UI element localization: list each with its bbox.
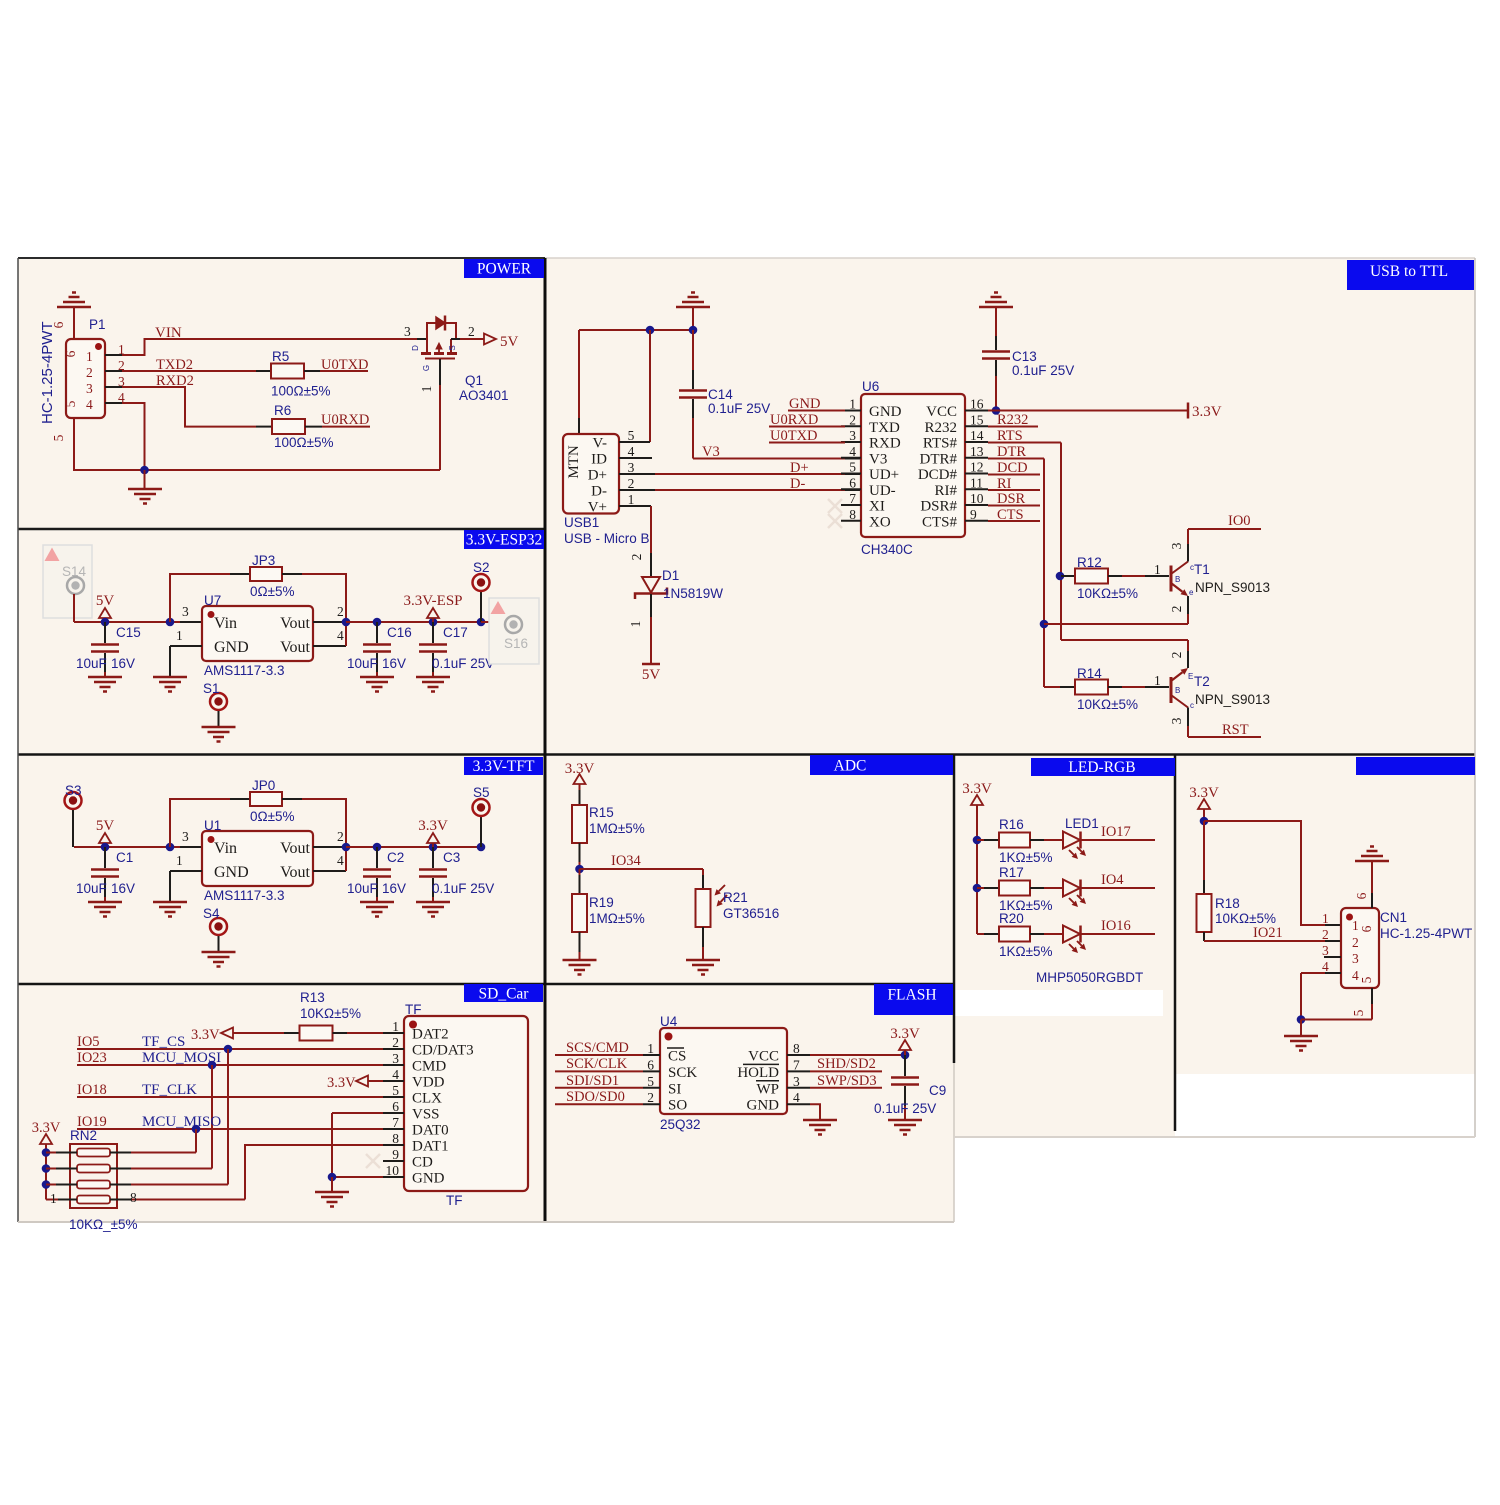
svg-text:SWP/SD3: SWP/SD3 bbox=[817, 1073, 877, 1089]
svg-text:DTR: DTR bbox=[997, 444, 1026, 460]
svg-text:AMS1117-3.3: AMS1117-3.3 bbox=[204, 663, 285, 678]
junction bbox=[42, 1148, 51, 1157]
svg-text:JP3: JP3 bbox=[252, 553, 275, 568]
pin 7 DAT0 of TF bbox=[383, 1128, 404, 1130]
diode D1 1N5819W bbox=[650, 506, 652, 553]
svg-text:GND: GND bbox=[214, 864, 249, 881]
svg-text:100Ω±5%: 100Ω±5% bbox=[271, 384, 331, 399]
pin 3 WP of U4 bbox=[787, 1087, 810, 1089]
svg-text:3.3V: 3.3V bbox=[418, 818, 448, 834]
svg-text:8: 8 bbox=[392, 1131, 399, 1146]
svg-text:VCC: VCC bbox=[748, 1049, 779, 1065]
svg-text:16V: 16V bbox=[111, 881, 135, 896]
svg-text:TXD2: TXD2 bbox=[156, 357, 193, 373]
svg-text:D-: D- bbox=[591, 484, 607, 500]
pin 16 VCC of U6 bbox=[965, 410, 988, 412]
junction Vin node bbox=[166, 618, 175, 627]
junction bbox=[101, 618, 110, 627]
svg-text:100Ω±5%: 100Ω±5% bbox=[274, 435, 334, 450]
svg-text:DAT0: DAT0 bbox=[412, 1123, 449, 1139]
svg-text:CTS#: CTS# bbox=[922, 514, 958, 530]
wire SCS/CMD net bbox=[555, 1054, 643, 1056]
svg-text:S16: S16 bbox=[504, 636, 528, 651]
svg-text:CD/DAT3: CD/DAT3 bbox=[412, 1043, 474, 1059]
svg-text:CTS: CTS bbox=[997, 507, 1024, 523]
svg-text:3: 3 bbox=[182, 604, 189, 619]
svg-text:RTS: RTS bbox=[997, 428, 1023, 444]
junction bbox=[208, 1061, 217, 1070]
svg-text:R12: R12 bbox=[1077, 555, 1102, 570]
svg-text:IO18: IO18 bbox=[77, 1082, 107, 1098]
svg-text:R232: R232 bbox=[997, 412, 1028, 428]
LED element IO17 bbox=[1063, 832, 1080, 849]
svg-text:10KΩ±5%: 10KΩ±5% bbox=[300, 1006, 361, 1021]
pin stubs USB1 bbox=[619, 441, 650, 443]
svg-text:12: 12 bbox=[970, 460, 984, 475]
pin 6 UD- of U6 bbox=[841, 488, 861, 490]
svg-text:10: 10 bbox=[970, 491, 984, 506]
wire to ghost pad S16 bbox=[481, 621, 498, 623]
svg-text:3.3V: 3.3V bbox=[565, 761, 595, 777]
ground (CN1 bottom) bbox=[1300, 1020, 1302, 1037]
svg-text:IO17: IO17 bbox=[1101, 824, 1131, 840]
title bar FLASH bbox=[874, 984, 953, 1015]
wire TXD2 net bbox=[122, 370, 256, 372]
svg-text:V3: V3 bbox=[869, 451, 887, 467]
svg-text:G: G bbox=[422, 365, 431, 371]
junction bbox=[575, 865, 584, 874]
IC U4 25Q32 bbox=[660, 1028, 787, 1114]
svg-text:Vout: Vout bbox=[280, 864, 310, 881]
pin 9 CD of TF bbox=[383, 1160, 404, 1162]
pin 11 RI# of U6 bbox=[965, 488, 988, 490]
svg-text:3: 3 bbox=[392, 1051, 399, 1066]
pin 1 GND of U6 bbox=[841, 410, 861, 412]
wire V- pin5 bbox=[649, 330, 651, 442]
svg-text:5: 5 bbox=[647, 1074, 654, 1089]
junction bbox=[192, 1125, 201, 1134]
svg-text:5: 5 bbox=[849, 460, 856, 475]
wire VIN net bbox=[122, 339, 417, 355]
svg-text:3: 3 bbox=[1169, 542, 1184, 549]
no-connect mark TF pin9 bbox=[366, 1154, 380, 1168]
pin 4 GND of U4 bbox=[787, 1103, 810, 1105]
svg-text:IO23: IO23 bbox=[77, 1050, 107, 1066]
svg-text:8: 8 bbox=[849, 507, 856, 522]
svg-text:16: 16 bbox=[970, 397, 984, 412]
svg-text:DAT2: DAT2 bbox=[412, 1027, 449, 1043]
pin 8 DAT1 of TF bbox=[383, 1144, 404, 1146]
svg-text:10uF: 10uF bbox=[347, 656, 378, 671]
svg-text:Vout: Vout bbox=[280, 840, 310, 857]
wire 3.3V rail bbox=[346, 846, 481, 848]
wire IO18 / TF_CLK net bbox=[77, 1096, 383, 1098]
svg-text:10uF: 10uF bbox=[347, 881, 378, 896]
ghost pad S14 bbox=[43, 545, 92, 618]
svg-text:1: 1 bbox=[628, 492, 635, 507]
svg-text:HC-1.25-4PWT: HC-1.25-4PWT bbox=[39, 321, 56, 424]
connector CN1 HC-1.25-4PWT bbox=[1341, 908, 1379, 988]
svg-text:C14: C14 bbox=[708, 387, 733, 402]
wire S14 to rail bbox=[73, 594, 75, 622]
ground U7 GND bbox=[153, 677, 187, 692]
wire CN1 pin6 to ground bbox=[1371, 893, 1373, 908]
capacitor C1 10uF 16V bbox=[104, 847, 106, 868]
wire DCD net bbox=[988, 474, 1040, 476]
pin 6 VSS of TF bbox=[383, 1112, 404, 1114]
svg-text:3.3V-ESP32: 3.3V-ESP32 bbox=[466, 532, 543, 549]
wire RXD2 net bbox=[122, 387, 256, 427]
ground under C2 bbox=[360, 902, 394, 917]
svg-text:R15: R15 bbox=[589, 805, 614, 820]
svg-text:5V: 5V bbox=[96, 593, 115, 609]
svg-text:2: 2 bbox=[628, 476, 635, 491]
svg-text:U0TXD: U0TXD bbox=[770, 428, 818, 444]
wire P1 pin4 to gnd rail bbox=[122, 403, 145, 470]
svg-text:14: 14 bbox=[970, 428, 984, 443]
svg-text:U6: U6 bbox=[862, 379, 879, 394]
pin 13 DTR# of U6 bbox=[965, 457, 988, 459]
svg-text:E: E bbox=[1188, 672, 1193, 681]
wire GND net label bbox=[788, 410, 845, 412]
junction bbox=[477, 618, 486, 627]
svg-text:LED-RGB: LED-RGB bbox=[1068, 759, 1135, 776]
regulator U1 AMS1117-3.3 bbox=[180, 846, 202, 848]
svg-text:Vout: Vout bbox=[280, 615, 310, 632]
svg-text:RI: RI bbox=[997, 476, 1012, 492]
svg-text:SO: SO bbox=[668, 1098, 687, 1114]
svg-text:DCD: DCD bbox=[997, 460, 1028, 476]
svg-text:4: 4 bbox=[1322, 959, 1329, 974]
svg-text:U1: U1 bbox=[204, 818, 221, 833]
svg-text:16V: 16V bbox=[382, 881, 406, 896]
svg-text:ID: ID bbox=[591, 452, 607, 468]
svg-text:U0TXD: U0TXD bbox=[321, 357, 369, 373]
wire U0TXD net bbox=[304, 370, 320, 372]
ground (USB1 top) bbox=[676, 293, 710, 308]
pin stubs P1 1-4 bbox=[105, 354, 122, 356]
svg-text:SDO/SD0: SDO/SD0 bbox=[566, 1089, 625, 1105]
svg-text:3: 3 bbox=[182, 829, 189, 844]
svg-text:4: 4 bbox=[337, 628, 344, 643]
svg-text:R14: R14 bbox=[1077, 666, 1102, 681]
svg-text:4: 4 bbox=[392, 1067, 399, 1082]
capacitor C9 0.1uF 25V bbox=[904, 1055, 906, 1076]
ground under C9 bbox=[888, 1120, 922, 1135]
svg-text:10KΩ±5%: 10KΩ±5% bbox=[1215, 911, 1276, 926]
svg-text:10: 10 bbox=[386, 1163, 400, 1178]
svg-text:VIN: VIN bbox=[155, 325, 182, 341]
ground (U4) bbox=[803, 1120, 837, 1135]
wire IO16 net bbox=[1082, 933, 1156, 935]
svg-text:U7: U7 bbox=[204, 593, 221, 608]
svg-text:6: 6 bbox=[647, 1057, 654, 1072]
svg-text:JP0: JP0 bbox=[252, 778, 275, 793]
svg-text:10uF: 10uF bbox=[76, 881, 107, 896]
svg-text:HOLD: HOLD bbox=[737, 1065, 779, 1081]
svg-text:2: 2 bbox=[392, 1035, 399, 1050]
pin 7 HOLD of U4 bbox=[787, 1070, 810, 1072]
svg-text:7: 7 bbox=[849, 491, 856, 506]
svg-text:XI: XI bbox=[869, 499, 885, 515]
ground under C17 bbox=[416, 677, 450, 692]
svg-text:5: 5 bbox=[63, 400, 78, 407]
title bar 3.3V-TFT bbox=[464, 757, 543, 775]
svg-text:D: D bbox=[411, 345, 420, 351]
junction bbox=[477, 843, 486, 852]
svg-text:IO0: IO0 bbox=[1228, 513, 1251, 529]
svg-text:MTN: MTN bbox=[566, 445, 582, 479]
wire VSS to ground bbox=[332, 1112, 383, 1114]
power flag 5V bbox=[99, 833, 111, 843]
resistor R20 1K bbox=[977, 933, 984, 935]
pin 14 RTS# of U6 bbox=[965, 441, 988, 443]
svg-text:4: 4 bbox=[337, 853, 344, 868]
svg-text:IO5: IO5 bbox=[77, 1034, 100, 1050]
pin 8 VCC of U4 bbox=[787, 1054, 810, 1056]
svg-text:D+: D+ bbox=[588, 468, 607, 484]
svg-text:WP: WP bbox=[757, 1081, 780, 1097]
svg-text:S5: S5 bbox=[473, 785, 490, 800]
LED element IO16 bbox=[1063, 926, 1080, 943]
ground (TF) bbox=[331, 1177, 333, 1192]
svg-text:DSR#: DSR# bbox=[920, 499, 957, 515]
junction bbox=[429, 843, 438, 852]
svg-text:TF: TF bbox=[446, 1193, 463, 1208]
svg-text:1: 1 bbox=[1154, 673, 1161, 688]
svg-text:4: 4 bbox=[628, 444, 635, 459]
junction bbox=[689, 326, 698, 335]
wire SWP/SD3 net bbox=[810, 1087, 882, 1089]
wire GND pin U4 to ground bbox=[810, 1104, 820, 1120]
svg-text:VSS: VSS bbox=[412, 1107, 440, 1123]
wire gnd rail to Q1 gate bbox=[145, 469, 441, 471]
pin 7 XI of U6 bbox=[841, 504, 861, 506]
svg-text:1MΩ±5%: 1MΩ±5% bbox=[589, 821, 645, 836]
wire IO4 net bbox=[1082, 887, 1156, 889]
svg-text:RI#: RI# bbox=[935, 483, 958, 499]
svg-text:9: 9 bbox=[392, 1147, 399, 1162]
pin 3 CMD of TF bbox=[383, 1064, 404, 1066]
pin 12 DCD# of U6 bbox=[965, 473, 988, 475]
wire SDO/SD0 net bbox=[555, 1103, 643, 1105]
svg-text:3: 3 bbox=[628, 460, 635, 475]
svg-text:2: 2 bbox=[1169, 652, 1184, 659]
svg-text:4: 4 bbox=[1352, 968, 1359, 983]
svg-text:CN1: CN1 bbox=[1380, 910, 1407, 925]
wire IO17 net bbox=[1082, 839, 1156, 841]
svg-text:GND: GND bbox=[789, 396, 820, 412]
pin 10 DSR# of U6 bbox=[965, 504, 988, 506]
svg-text:6: 6 bbox=[1354, 892, 1369, 899]
power port 5V (D1 anode) bbox=[642, 663, 660, 666]
svg-text:D+: D+ bbox=[790, 460, 809, 476]
wire U0RXD net bbox=[305, 426, 322, 428]
pin 1 DAT2 of TF bbox=[383, 1032, 404, 1034]
svg-text:0Ω±5%: 0Ω±5% bbox=[250, 809, 295, 824]
svg-text:5V: 5V bbox=[96, 818, 115, 834]
junction bbox=[646, 326, 655, 335]
title bar (blank) bbox=[1356, 757, 1475, 775]
svg-text:C3: C3 bbox=[443, 850, 460, 865]
svg-text:DAT1: DAT1 bbox=[412, 1139, 449, 1155]
wire RI net bbox=[988, 489, 1040, 491]
svg-text:1KΩ±5%: 1KΩ±5% bbox=[999, 944, 1053, 959]
junction bbox=[373, 618, 382, 627]
ground (CN1 top) bbox=[1355, 847, 1389, 862]
svg-text:1: 1 bbox=[419, 386, 434, 393]
svg-text:2: 2 bbox=[337, 829, 344, 844]
power flag 3.3V (LED) bbox=[971, 795, 983, 805]
svg-text:AO3401: AO3401 bbox=[459, 388, 509, 403]
svg-text:2: 2 bbox=[1322, 927, 1329, 942]
svg-text:XO: XO bbox=[869, 514, 891, 530]
test point S4 with ground bbox=[210, 918, 227, 935]
svg-text:R19: R19 bbox=[589, 895, 614, 910]
svg-text:CLX: CLX bbox=[412, 1091, 442, 1107]
connector TF (SD card) bbox=[404, 1016, 528, 1191]
title bar 3.3V-ESP32 bbox=[464, 530, 544, 549]
wire D- net bbox=[655, 489, 845, 491]
svg-text:0.1uF 25V: 0.1uF 25V bbox=[1012, 363, 1074, 378]
svg-text:MHP5050RGBDT: MHP5050RGBDT bbox=[1036, 970, 1143, 985]
svg-text:IO21: IO21 bbox=[1253, 925, 1283, 941]
svg-text:Vin: Vin bbox=[214, 840, 237, 857]
svg-text:NPN_S9013: NPN_S9013 bbox=[1195, 580, 1270, 595]
power flag 5V bbox=[99, 608, 111, 618]
svg-text:Vout: Vout bbox=[280, 639, 310, 656]
svg-text:B: B bbox=[1175, 686, 1180, 695]
svg-text:CH340C: CH340C bbox=[861, 542, 913, 557]
RN2 element 3 bbox=[77, 1181, 110, 1189]
wire P1 pin6 to ground bbox=[73, 307, 75, 339]
svg-text:C13: C13 bbox=[1012, 349, 1037, 364]
svg-text:USB - Micro B: USB - Micro B bbox=[564, 531, 650, 546]
svg-text:C16: C16 bbox=[387, 625, 412, 640]
power flag 3.3V (ADC) bbox=[574, 774, 586, 784]
RN2 element 2 bbox=[77, 1165, 110, 1173]
svg-text:4: 4 bbox=[849, 444, 856, 459]
svg-text:16V: 16V bbox=[382, 656, 406, 671]
svg-text:VCC: VCC bbox=[926, 404, 957, 420]
svg-text:3: 3 bbox=[1352, 951, 1359, 966]
svg-text:15: 15 bbox=[970, 412, 984, 427]
photoresistor R21 GT36516 bbox=[696, 889, 711, 927]
wire RN2-1 to MISO bbox=[131, 1152, 196, 1154]
junction Vout node bbox=[342, 618, 351, 627]
svg-text:1: 1 bbox=[628, 621, 643, 628]
wire 5V rail bbox=[74, 621, 180, 623]
svg-text:GT36516: GT36516 bbox=[723, 906, 779, 921]
svg-text:3.3V: 3.3V bbox=[1192, 404, 1222, 420]
svg-text:3: 3 bbox=[793, 1074, 800, 1089]
wire RST net bbox=[1188, 736, 1261, 738]
ground under C16 bbox=[360, 677, 394, 692]
svg-text:USB to TTL: USB to TTL bbox=[1370, 263, 1448, 280]
svg-text:GND: GND bbox=[869, 404, 902, 420]
resistor R14 10K bbox=[1044, 686, 1060, 688]
svg-text:Q1: Q1 bbox=[465, 373, 483, 388]
transistor T2 NPN_S9013 bbox=[1170, 677, 1173, 703]
svg-text:e: e bbox=[1189, 588, 1194, 597]
wire GND pin TF bbox=[332, 1176, 383, 1178]
wire SCK/CLK net bbox=[555, 1070, 643, 1072]
junction bbox=[429, 618, 438, 627]
ground under C3 bbox=[416, 902, 450, 917]
svg-text:3: 3 bbox=[404, 324, 411, 339]
svg-text:1MΩ±5%: 1MΩ±5% bbox=[589, 911, 645, 926]
svg-text:SDI/SD1: SDI/SD1 bbox=[566, 1073, 619, 1089]
svg-text:V3: V3 bbox=[702, 444, 720, 460]
junction bbox=[992, 406, 1001, 415]
wire V3 net bbox=[693, 458, 845, 460]
svg-text:1N5819W: 1N5819W bbox=[663, 586, 723, 601]
svg-text:R16: R16 bbox=[999, 817, 1024, 832]
ghost pad S16 bbox=[489, 598, 539, 664]
svg-text:VDD: VDD bbox=[412, 1075, 445, 1091]
svg-text:2: 2 bbox=[849, 412, 856, 427]
svg-text:R232: R232 bbox=[924, 420, 957, 436]
pin 1 GND of U1 bbox=[170, 870, 202, 872]
svg-text:MCU_MOSI: MCU_MOSI bbox=[142, 1050, 221, 1066]
wire IO5 / TF_CS net bbox=[77, 1048, 383, 1050]
svg-text:S3: S3 bbox=[65, 783, 82, 798]
svg-text:HC-1.25-4PWT: HC-1.25-4PWT bbox=[1380, 926, 1472, 941]
pin 5 SI of U4 bbox=[643, 1087, 660, 1089]
svg-text:1: 1 bbox=[849, 397, 856, 412]
svg-text:3.3V: 3.3V bbox=[191, 1027, 220, 1043]
svg-text:11: 11 bbox=[970, 475, 983, 490]
wire IO19 / MCU_MISO net bbox=[77, 1128, 383, 1130]
svg-text:6: 6 bbox=[392, 1099, 399, 1114]
pin 2 SO of U4 bbox=[643, 1103, 660, 1105]
svg-text:1: 1 bbox=[1352, 918, 1359, 933]
wire 3.3V to CN1 pin1 bbox=[1204, 821, 1325, 925]
wire VCC to 3.3V bbox=[810, 1054, 905, 1056]
IC U6 CH340C bbox=[861, 394, 965, 537]
svg-text:TF: TF bbox=[405, 1002, 422, 1017]
capacitor C15 10uF 16V bbox=[104, 622, 106, 643]
svg-text:T1: T1 bbox=[1194, 562, 1210, 577]
svg-text:13: 13 bbox=[970, 444, 984, 459]
svg-text:SI: SI bbox=[668, 1081, 681, 1097]
resistor R15 1M bbox=[572, 805, 587, 843]
svg-text:B: B bbox=[1175, 575, 1180, 584]
svg-text:1: 1 bbox=[392, 1019, 399, 1034]
svg-text:C2: C2 bbox=[387, 850, 404, 865]
svg-text:RN2: RN2 bbox=[70, 1128, 97, 1143]
svg-text:2: 2 bbox=[337, 604, 344, 619]
svg-text:2: 2 bbox=[647, 1090, 654, 1105]
svg-text:5V: 5V bbox=[642, 667, 661, 683]
svg-text:SCK: SCK bbox=[668, 1065, 697, 1081]
junction Vout node bbox=[342, 843, 351, 852]
svg-text:2: 2 bbox=[629, 554, 644, 561]
resistor R6 bbox=[272, 419, 305, 434]
RN2 element 1 bbox=[77, 1149, 110, 1157]
junction bbox=[1056, 572, 1065, 581]
wire LED supply bus bbox=[976, 805, 978, 934]
wire CTS net bbox=[988, 520, 1040, 522]
svg-text:4: 4 bbox=[793, 1090, 800, 1105]
svg-text:10KΩ_±5%: 10KΩ_±5% bbox=[69, 1217, 138, 1232]
svg-text:DTR#: DTR# bbox=[920, 451, 958, 467]
svg-text:2: 2 bbox=[1352, 935, 1359, 950]
junction bbox=[224, 1045, 233, 1054]
svg-text:1KΩ±5%: 1KΩ±5% bbox=[999, 850, 1053, 865]
svg-text:IO16: IO16 bbox=[1101, 918, 1131, 934]
svg-text:DSR: DSR bbox=[997, 491, 1026, 507]
